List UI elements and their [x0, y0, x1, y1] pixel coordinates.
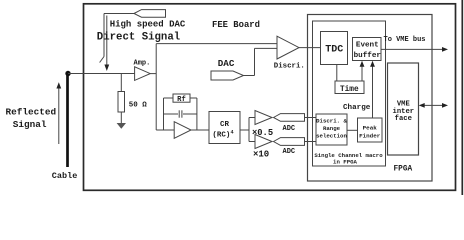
svg-text:Peak: Peak: [363, 125, 378, 132]
FPGA box: [308, 15, 433, 182]
svg-text:Rf: Rf: [177, 96, 186, 104]
TDC box: [321, 32, 348, 65]
svg-text:Charge: Charge: [343, 104, 371, 112]
svg-text:×10: ×10: [253, 150, 269, 160]
wire discriminator to TDC: [299, 47, 321, 49]
injection arrow onto input line: [104, 16, 109, 72]
ADC tag upper: [274, 114, 305, 122]
svg-text:Amp.: Amp.: [134, 59, 151, 67]
svg-text:Event: Event: [356, 42, 379, 50]
wire junction vertical: [155, 44, 157, 130]
svg-text:selection: selection: [316, 132, 347, 139]
svg-text:Discri. &: Discri. &: [316, 117, 347, 124]
capacitor Cf: [164, 113, 179, 115]
svg-text:Reflected: Reflected: [6, 107, 57, 118]
FEE board outer box: [84, 4, 456, 191]
wire shaper input: [156, 129, 174, 131]
amplifier Amp.: [135, 67, 151, 81]
high speed DAC tag: [134, 10, 166, 18]
discriminator Discri.: [277, 36, 299, 59]
svg-text:FEE Board: FEE Board: [212, 20, 260, 30]
wire amp output to shaper: [191, 129, 209, 131]
time box: [335, 81, 364, 94]
resistor 50 ohm: [120, 74, 122, 92]
svg-text:(RC)4: (RC)4: [212, 130, 233, 140]
svg-text:buffer: buffer: [354, 52, 382, 60]
peak finder box: [358, 118, 383, 142]
svg-text:Discri.: Discri.: [274, 62, 305, 70]
wire TDC to time box: [336, 65, 338, 82]
DAC tag: [211, 71, 244, 80]
wire main input line: [68, 73, 135, 75]
wire shaper output: [240, 129, 249, 131]
wire ADC outputs into FPGA: [305, 117, 317, 119]
wire direct signal line to discriminator: [156, 43, 277, 45]
single channel macro box: [313, 21, 386, 166]
svg-text:face: face: [395, 115, 412, 123]
VME interface box: [388, 63, 419, 155]
reflected signal arrow: [56, 82, 61, 144]
discri range selection box: [316, 114, 347, 145]
svg-text:FPGA: FPGA: [394, 165, 413, 173]
scan artifact right edge: [461, 0, 463, 195]
node input junction: [65, 71, 70, 76]
cable (thick coax line): [66, 72, 69, 167]
svg-text:Time: Time: [340, 86, 359, 94]
wire DAC to discriminator threshold: [244, 75, 255, 77]
svg-text:TDC: TDC: [325, 45, 343, 56]
ground: [117, 123, 126, 129]
amplifier x10: [255, 135, 272, 149]
svg-text:To VME bus: To VME bus: [384, 36, 426, 44]
svg-text:Cable: Cable: [52, 171, 78, 181]
svg-text:High speed DAC: High speed DAC: [110, 19, 186, 29]
svg-text:50 Ω: 50 Ω: [129, 101, 148, 109]
svg-text:ADC: ADC: [283, 125, 296, 133]
svg-text:Finder: Finder: [359, 133, 381, 140]
svg-text:DAC: DAC: [218, 58, 235, 69]
svg-text:CR: CR: [220, 121, 230, 129]
feedback network wires: [163, 98, 165, 130]
switch blade: [100, 14, 104, 63]
svg-text:Signal: Signal: [13, 119, 47, 130]
wire to VME bus: [381, 47, 448, 52]
op-amp feedback amplifier: [174, 122, 191, 139]
wire from DAC tag to injection point: [104, 13, 134, 15]
wire split: [248, 118, 250, 142]
ADC tag lower: [274, 138, 305, 146]
shaper CR(RC)4 box: [209, 112, 240, 144]
event buffer box: [353, 38, 382, 61]
wire charge to event buffer: [370, 61, 375, 118]
svg-text:Range: Range: [323, 125, 341, 132]
wire to peak finder: [347, 129, 358, 131]
wire time to event buffer: [360, 61, 365, 81]
svg-text:ADC: ADC: [283, 148, 296, 156]
amplifier x0.5: [255, 111, 272, 125]
svg-text:Direct Signal: Direct Signal: [97, 32, 180, 44]
resistor Rf: [173, 94, 190, 102]
wire VME double arrow: [419, 103, 448, 108]
wire amp output: [150, 73, 156, 75]
svg-text:in FPGA: in FPGA: [333, 158, 357, 165]
